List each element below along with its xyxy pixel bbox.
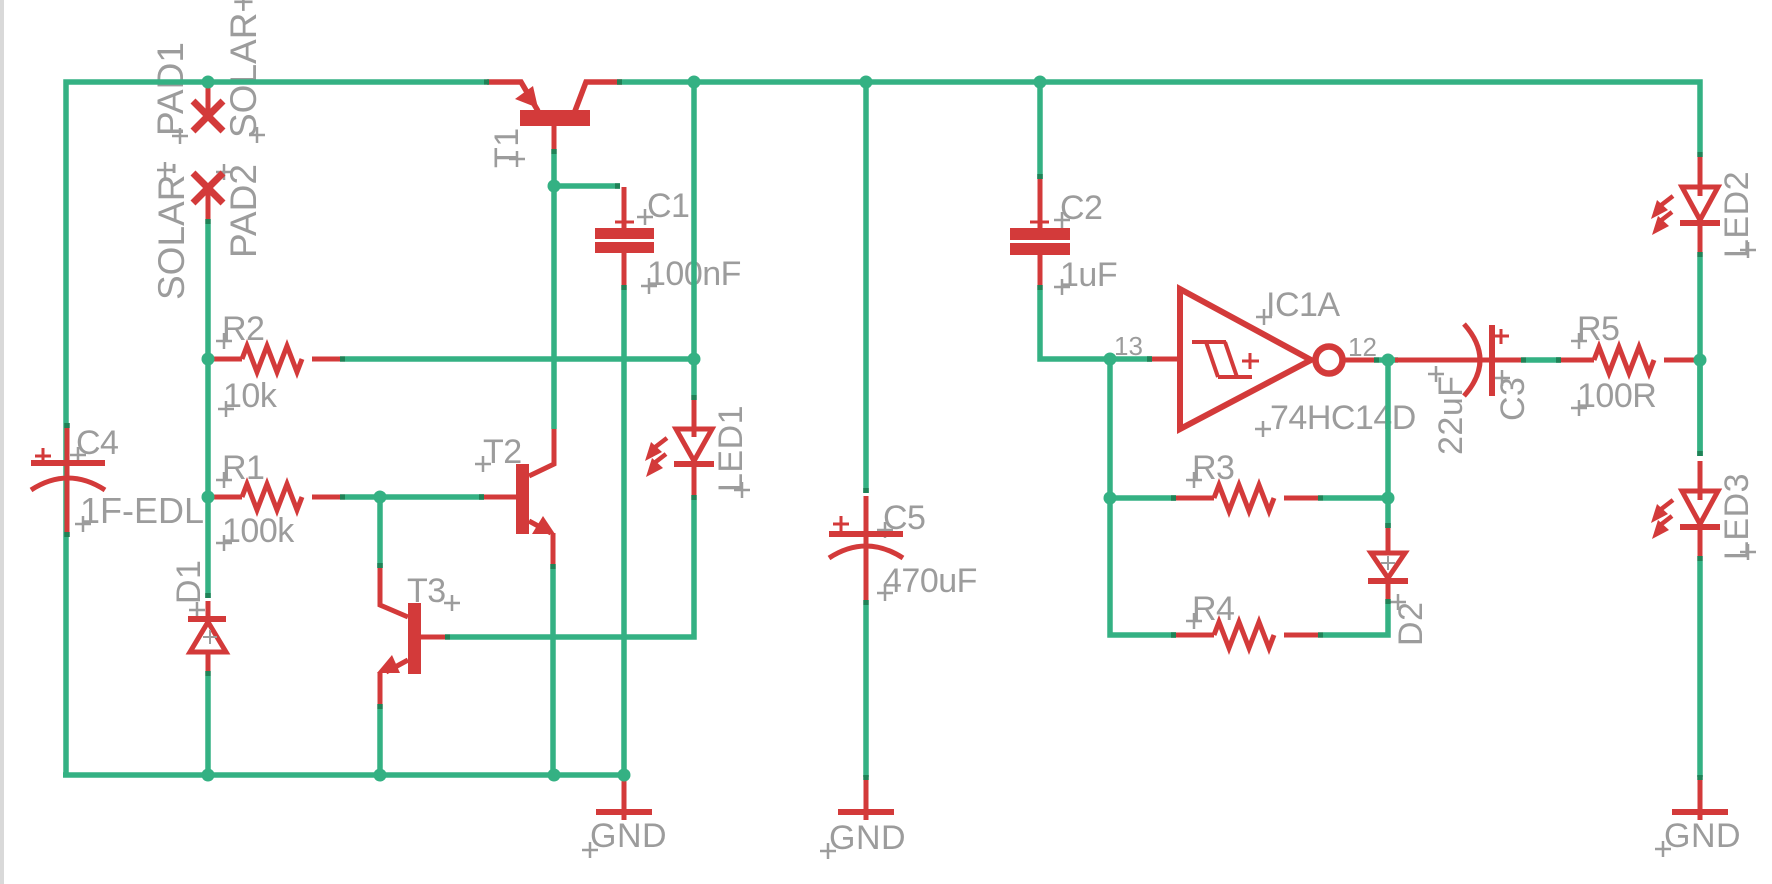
diode D2 triangle	[1371, 553, 1405, 578]
pin tip shading	[484, 79, 489, 85]
transistor T2 body	[516, 464, 529, 534]
junction R3 left / R4	[1104, 492, 1117, 505]
junction ground rail / D1	[202, 769, 215, 782]
resistor R2 leads	[213, 357, 242, 362]
LED LED3 anode lead	[1698, 461, 1703, 500]
wire R1 to T2 base	[345, 494, 484, 500]
wire D1 cathode-anode column	[205, 676, 211, 775]
pad PAD1 X mark	[193, 84, 223, 131]
junction ground rail / T2 emitter	[548, 769, 561, 782]
LED LED1 arrows	[645, 438, 667, 477]
transistor T3 collector lead	[380, 568, 408, 617]
wire T2 emitter down to ground rail	[550, 569, 556, 775]
diode D1 triangle	[190, 622, 226, 652]
junction V+ / PAD1	[202, 76, 215, 89]
transistor T1 base lead	[552, 126, 557, 149]
LED LED2 triangle	[1682, 187, 1718, 220]
wire LED3 cathode down to GND	[1697, 561, 1703, 777]
resistor R4 leads	[1176, 633, 1214, 638]
transistor T1 emitter lead	[487, 82, 538, 111]
capacitor C3 lead through	[1395, 358, 1523, 363]
capacitor C3 arc plate	[1464, 324, 1480, 396]
LED LED1 cathode lead	[692, 466, 697, 495]
LED LED3 cathode bar	[1680, 524, 1720, 530]
wire V+ to C2 top	[1037, 84, 1043, 179]
op-amp U1 inverter IC1A triangle	[1180, 289, 1311, 429]
svg-text:22uF: 22uF	[1432, 376, 1470, 456]
LED LED3 arrows	[1651, 500, 1673, 539]
svg-text:1F-EDL: 1F-EDL	[80, 490, 204, 531]
capacitor C2 top lead	[1038, 179, 1043, 228]
svg-text:T2: T2	[483, 433, 522, 471]
capacitor C2 plates	[1010, 228, 1070, 240]
capacitor C2 bottom lead	[1038, 255, 1043, 285]
wire R3 left lead wire	[1110, 495, 1176, 501]
LED LED3 triangle	[1682, 491, 1718, 524]
svg-text:R4: R4	[1192, 590, 1234, 628]
capacitor C3 straight plate	[1489, 325, 1495, 396]
junction R3 right / D2	[1382, 492, 1395, 505]
capacitor C5 top plate	[829, 531, 903, 537]
svg-text:D1: D1	[170, 560, 208, 604]
resistor R4 zigzag	[1214, 622, 1274, 648]
pad PAD2 X mark	[193, 173, 223, 219]
svg-text:GND: GND	[1664, 817, 1741, 855]
svg-text:SOLAR-: SOLAR-	[151, 162, 192, 300]
svg-text:100R: 100R	[1577, 377, 1656, 415]
svg-text:LED3: LED3	[1718, 473, 1756, 560]
svg-text:GND: GND	[590, 817, 667, 855]
svg-text:R2: R2	[222, 310, 264, 348]
wire T1 base node to C1 top	[554, 183, 620, 189]
ground GND1 symbol	[596, 778, 652, 820]
capacitor C1 plus mark	[615, 213, 634, 231]
svg-text:C1: C1	[647, 187, 689, 225]
capacitor C1 plates	[595, 228, 654, 239]
ground GND3 symbol	[838, 780, 894, 820]
resistor R1 zigzag	[242, 484, 302, 510]
wire IC1A output to C3	[1379, 357, 1398, 363]
svg-text:74HC14D: 74HC14D	[1270, 399, 1416, 437]
wire R3 right to output column	[1323, 495, 1388, 501]
capacitor C2 plus mark	[1030, 213, 1049, 231]
wire output column down to R3/D2	[1385, 362, 1391, 528]
transistor T1 body	[520, 110, 590, 126]
svg-text:C3: C3	[1494, 377, 1532, 421]
LED LED2 arrows	[1651, 196, 1673, 235]
capacitor C1 top lead	[622, 187, 627, 228]
svg-text:PAD2: PAD2	[223, 164, 264, 258]
wire PAD2 column down to R2/R1 node	[205, 224, 211, 598]
junction ground rail / T3 emitter	[374, 769, 387, 782]
junction R2 / LED1 anode	[688, 353, 701, 366]
junction R1 / T3 collector	[374, 491, 387, 504]
capacitor C5 plus mark	[833, 516, 849, 532]
wire LED1 cathode to T3 base	[450, 500, 694, 637]
junction IC1A output node	[1382, 354, 1395, 367]
resistor R2 zigzag	[242, 346, 302, 372]
IC1A output bubble	[1316, 347, 1343, 374]
resistor R5 leads	[1561, 358, 1594, 363]
transistor T2 emitter stub	[551, 533, 556, 564]
IC1A schmitt hysteresis glyph	[1192, 342, 1252, 377]
wire C5 bottom to GND	[863, 605, 869, 777]
wire V+ to C5 top	[863, 84, 869, 493]
svg-text:C4: C4	[76, 424, 118, 462]
wire C4 top stub	[64, 423, 70, 428]
junction R5 / LED2-LED3	[1694, 354, 1707, 367]
svg-text:1uF: 1uF	[1060, 256, 1117, 294]
capacitor C3 plus mark	[1494, 329, 1509, 344]
LED LED2 cathode lead	[1698, 225, 1703, 252]
capacitor C5 bottom arc plate	[829, 546, 903, 558]
svg-text:IC1A: IC1A	[1266, 286, 1340, 324]
LED LED2 anode lead	[1698, 157, 1703, 196]
capacitor C4 plus mark	[35, 448, 51, 464]
svg-text:GND: GND	[829, 819, 906, 857]
diode D2 hidden origin cross	[1381, 556, 1395, 570]
diode D1 hidden origin cross	[203, 630, 217, 644]
wire T3 emitter down to ground rail	[377, 709, 383, 775]
IC1A plus mark	[1242, 353, 1259, 369]
wire R5 node down to LED3 anode	[1697, 360, 1703, 456]
wire R4 right to D2 bottom	[1323, 604, 1388, 635]
transistor T2 collector lead	[529, 429, 554, 476]
transistor T3 body	[408, 603, 421, 674]
wire V+ rail: left vertical + top-left segment	[66, 82, 484, 775]
transistor T3 emitter lead	[386, 660, 408, 672]
LED LED1 anode lead	[692, 400, 697, 437]
wire C1 bottom to ground rail	[621, 290, 627, 775]
wire R2 to LED1 column	[345, 356, 694, 362]
LED LED1 triangle	[676, 429, 712, 461]
svg-text:T1: T1	[488, 127, 526, 168]
resistor R3 leads	[1176, 496, 1214, 501]
transistor T2 emitter arrow	[532, 516, 555, 534]
LED LED2 cathode bar	[1680, 220, 1720, 226]
junction IC1A input node	[1104, 353, 1117, 366]
wire V+ down to LED1 anode	[691, 84, 697, 395]
transistor T1 emitter arrow	[515, 86, 538, 108]
ground GND2 symbol	[1672, 780, 1728, 820]
resistor R3 zigzag	[1214, 485, 1274, 511]
svg-text:LED1: LED1	[712, 405, 750, 492]
resistor R1 leads	[213, 495, 242, 500]
junction V+ / C5	[860, 76, 873, 89]
IC1A pin 13 lead	[1152, 357, 1180, 362]
transistor T1 collector lead	[575, 82, 622, 111]
wire T1 base node down to T2 collector	[551, 154, 557, 429]
junction ground rail / GND1	[618, 769, 631, 782]
junction V+ / C2	[1034, 76, 1047, 89]
diode D1 cathode bar	[188, 616, 226, 622]
junction R2 left node	[202, 353, 215, 366]
junction R1 left node	[202, 491, 215, 504]
wire V+ rail: top-right segment to right column	[622, 82, 1700, 152]
svg-text:R3: R3	[1192, 449, 1234, 487]
transistor T3 base lead	[421, 635, 448, 640]
capacitor C1 bottom lead	[622, 253, 627, 285]
diode D1 leads	[206, 601, 211, 617]
diode D2 leads	[1386, 528, 1391, 551]
svg-text:LED2: LED2	[1718, 171, 1756, 258]
svg-text:PAD1: PAD1	[150, 42, 191, 136]
svg-text:R1: R1	[222, 449, 264, 487]
svg-text:SOLAR+: SOLAR+	[223, 0, 264, 138]
wire T3 collector up to R1 node	[377, 500, 383, 568]
resistor R5 zigzag	[1594, 347, 1654, 373]
capacitor C4 bottom arc plate	[31, 478, 105, 490]
capacitor C4 top plate	[31, 460, 105, 466]
IC1A pin 12 lead	[1342, 358, 1374, 363]
LED LED3 cathode lead	[1698, 529, 1703, 556]
wire C2 bottom to IC1A input node	[1040, 290, 1152, 359]
svg-text:100k: 100k	[222, 512, 295, 550]
capacitor C5 lead	[864, 496, 869, 600]
transistor T3 emitter stub	[378, 672, 383, 704]
transistor T2 emitter lead	[529, 521, 551, 533]
diode D2 cathode bar	[1368, 578, 1408, 584]
svg-text:470uF: 470uF	[883, 562, 977, 600]
capacitor C4 lead	[65, 428, 70, 532]
transistor T2 base lead	[484, 495, 516, 500]
wire IC1A input node down to R3 and R4	[1110, 359, 1176, 635]
wire LED2 cathode down to R5 node	[1697, 257, 1703, 456]
junction T1 base node	[548, 180, 561, 193]
svg-text:C2: C2	[1060, 189, 1102, 227]
wire C3 to R5	[1526, 357, 1561, 363]
wire bottom-left ground rail	[63, 772, 624, 778]
LED LED1 cathode bar	[674, 461, 714, 467]
transistor T3 emitter arrow	[377, 655, 400, 673]
junction V+ / LED1 branch	[688, 76, 701, 89]
